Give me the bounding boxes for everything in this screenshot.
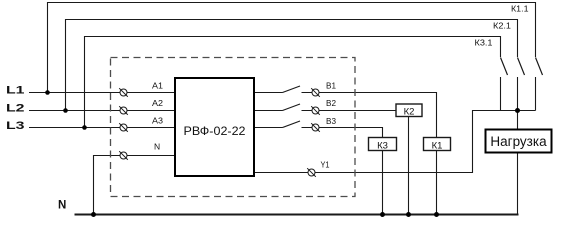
junction dot load at contact bus: [515, 108, 520, 113]
svg-text:N: N: [58, 200, 66, 212]
svg-text:L2: L2: [6, 103, 25, 115]
svg-text:L3: L3: [6, 120, 25, 132]
coil K3: [369, 138, 397, 152]
dashed enclosure boundary: [111, 58, 356, 197]
wire N to terminal N of relay: [94, 156, 175, 215]
svg-text:Y1: Y1: [321, 161, 330, 170]
contact blade B3: [283, 121, 301, 128]
junction dot N bus left: [91, 212, 96, 217]
wire net K3.1 from L3 across top: [85, 37, 501, 128]
wire L1 phase line: [29, 92, 175, 94]
junction dot K3 coil at N bus: [380, 212, 385, 217]
svg-text:N: N: [154, 142, 160, 152]
junction dot L3 tap: [82, 125, 87, 130]
svg-text:L1: L1: [6, 85, 25, 97]
svg-text:К1: К1: [432, 141, 443, 152]
load box Нагрузка: [486, 130, 552, 153]
svg-text:К3.1: К3.1: [475, 39, 494, 48]
coil K1: [424, 138, 451, 152]
svg-text:A2: A2: [152, 99, 164, 108]
svg-text:B1: B1: [326, 82, 337, 91]
svg-text:Нагрузка: Нагрузка: [490, 134, 547, 149]
wire B2 output lead: [254, 110, 283, 112]
contact blade B1: [283, 86, 301, 93]
junction dot K2 coil at N bus: [406, 212, 411, 217]
contact K3.1 blade: [501, 58, 508, 76]
terminal A2: [119, 106, 128, 115]
wire coil K1 to N bus: [436, 151, 438, 215]
junction dot L2 tap: [63, 108, 68, 113]
wire L3 phase line: [29, 127, 175, 129]
junction dot K1 coil at N bus: [434, 212, 439, 217]
contact K3.1 lower lead: [500, 77, 502, 111]
svg-text:К2.1: К2.1: [493, 22, 512, 31]
wire Y1 to contacts common bus: [254, 111, 536, 173]
svg-text:К2: К2: [404, 107, 415, 118]
wire B1 to coil K1: [302, 93, 437, 138]
svg-text:B3: B3: [326, 117, 337, 126]
terminal B1: [311, 88, 320, 97]
terminal B3: [311, 123, 320, 132]
relay U1 box РВФ-02-22: [175, 78, 254, 176]
wire B2 to coil K2: [302, 110, 397, 112]
svg-text:A3: A3: [152, 117, 164, 126]
contact K1.1 blade: [536, 58, 543, 76]
terminal A3: [119, 123, 128, 132]
wire coil K2 to N bus: [408, 117, 410, 215]
wire coil K3 to N bus: [382, 151, 384, 215]
terminal N: [119, 151, 128, 160]
svg-text:К1.1: К1.1: [511, 5, 529, 14]
contact K2.1 lower lead: [517, 77, 519, 111]
wire L2 phase line: [29, 110, 175, 112]
junction dot L1 tap: [45, 90, 50, 95]
wire load top drop: [517, 111, 519, 130]
contact blade B2: [283, 104, 301, 111]
terminal B2: [311, 106, 320, 115]
coil K2: [396, 104, 422, 118]
wire net K2.1 from L2 across top: [66, 20, 518, 111]
svg-text:РВФ-02-22: РВФ-02-22: [184, 124, 246, 138]
terminal Y1: [307, 168, 316, 177]
svg-text:B2: B2: [326, 99, 337, 108]
svg-text:A1: A1: [152, 82, 164, 91]
svg-text:К3: К3: [377, 141, 388, 152]
terminal A1: [119, 88, 128, 97]
contact K1.1 lower lead: [535, 77, 537, 111]
contact K2.1 blade: [518, 58, 525, 76]
wire B3 to coil K3: [302, 128, 383, 138]
wire N bus bottom: [75, 214, 519, 216]
wire B3 output lead: [254, 127, 283, 129]
wire load bottom to N bus: [517, 154, 519, 215]
wire net K1.1 from L1 up and across top: [48, 3, 536, 93]
wire B1 output lead: [254, 92, 283, 94]
